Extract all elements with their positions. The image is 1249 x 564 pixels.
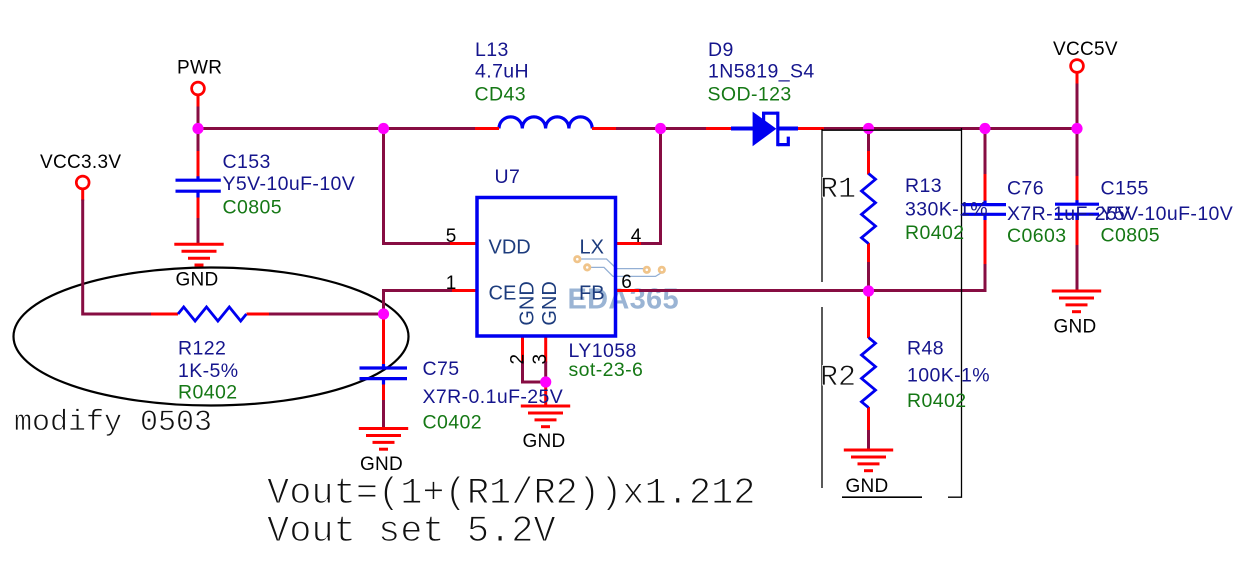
svg-text:C153: C153 xyxy=(223,151,271,173)
wire VCC3.3V to R122 xyxy=(81,190,84,201)
annotation line left bracket xyxy=(821,129,823,488)
junction FB bus / R13 bottom / R48 top xyxy=(863,285,874,296)
wire C75 branch xyxy=(382,314,385,319)
watermark EDA365 logo xyxy=(568,257,679,316)
annotation ellipse around R122 xyxy=(14,268,409,406)
capacitor C76 xyxy=(963,201,1007,220)
wire FB net (pin 6) xyxy=(616,289,640,292)
svg-text:X7R-0.1uF-25V: X7R-0.1uF-25V xyxy=(423,386,564,408)
capacitor C153 xyxy=(176,176,221,197)
svg-text:GND: GND xyxy=(1053,317,1096,338)
svg-text:C0402: C0402 xyxy=(423,412,482,434)
wire CE net (pin 1) xyxy=(451,289,477,292)
resistor R48 xyxy=(862,338,876,408)
wire R122 to CE junction xyxy=(247,313,271,316)
svg-text:FB: FB xyxy=(579,283,605,305)
diode D9 xyxy=(706,112,824,147)
ground symbol C75 xyxy=(359,429,408,450)
wire pins 2-3 junction to ground xyxy=(544,382,547,406)
svg-text:5: 5 xyxy=(446,226,457,247)
svg-text:LX: LX xyxy=(580,237,604,259)
svg-text:VDD: VDD xyxy=(489,237,531,259)
svg-text:CD43: CD43 xyxy=(475,84,526,106)
junction L13-D9 node / LX branch xyxy=(655,123,666,134)
svg-text:VCC5V: VCC5V xyxy=(1053,39,1118,60)
svg-text:L13: L13 xyxy=(475,39,509,61)
svg-text:GND: GND xyxy=(522,431,565,452)
annotation line top tick xyxy=(822,129,962,131)
wire U7 pin 2 xyxy=(521,336,524,362)
wire L13 right stub xyxy=(592,127,616,130)
svg-text:3: 3 xyxy=(530,354,551,365)
ground symbol R48 xyxy=(844,450,893,471)
junction U7 pins 2-3 ground node xyxy=(540,376,551,387)
svg-text:R13: R13 xyxy=(905,175,942,197)
wire LX net (pin 4) xyxy=(616,242,642,245)
annotation line right bracket xyxy=(948,128,962,497)
svg-text:R0402: R0402 xyxy=(178,382,237,404)
svg-text:C0603: C0603 xyxy=(1007,225,1066,247)
svg-text:VCC3.3V: VCC3.3V xyxy=(40,152,121,173)
svg-text:2: 2 xyxy=(508,354,529,365)
svg-text:R122: R122 xyxy=(178,338,226,360)
svg-text:GND: GND xyxy=(845,476,888,497)
svg-text:4.7uH: 4.7uH xyxy=(475,61,529,83)
svg-text:PWR: PWR xyxy=(177,58,222,79)
svg-text:R48: R48 xyxy=(907,338,944,360)
junction top bus / VDD branch xyxy=(378,123,389,134)
wire C76 branch xyxy=(984,220,987,265)
resistor R13 xyxy=(862,174,876,244)
svg-text:GND: GND xyxy=(539,281,561,325)
svg-text:R1: R1 xyxy=(820,173,856,207)
IC U7 body xyxy=(477,198,616,337)
ground symbol C153 xyxy=(174,244,223,265)
svg-text:SOD-123: SOD-123 xyxy=(708,84,792,106)
svg-text:GND: GND xyxy=(360,454,403,475)
svg-text:C0805: C0805 xyxy=(223,197,282,219)
svg-text:C155: C155 xyxy=(1101,178,1149,200)
terminal PWR xyxy=(192,82,205,95)
svg-text:Vout=(1+(R1/R2))x1.212: Vout=(1+(R1/R2))x1.212 xyxy=(267,473,755,515)
svg-text:100K-1%: 100K-1% xyxy=(907,365,990,387)
svg-text:CE: CE xyxy=(489,283,517,305)
capacitor C155 xyxy=(1055,200,1099,220)
terminal VCC5V xyxy=(1071,60,1084,73)
svg-text:6: 6 xyxy=(621,272,632,293)
junction VCC5V bus / C76 top xyxy=(979,123,990,134)
wire L13 left stub xyxy=(475,127,499,130)
svg-text:R0402: R0402 xyxy=(905,222,964,244)
wire C153 branch xyxy=(197,129,200,153)
svg-text:330K-1%: 330K-1% xyxy=(905,199,988,221)
junction CE / R122 / C75 node xyxy=(378,308,389,319)
ground symbol U7 pins 2-3 xyxy=(521,406,570,427)
svg-text:C75: C75 xyxy=(423,358,460,380)
wire R13 branch xyxy=(867,129,870,153)
wire C155 branch xyxy=(1076,73,1079,85)
svg-text:1: 1 xyxy=(446,273,457,294)
inductor L13 xyxy=(499,117,592,129)
junction VCC5V bus / C155 / terminal xyxy=(1071,123,1082,134)
svg-text:R0402: R0402 xyxy=(907,390,966,412)
svg-text:sot-23-6: sot-23-6 xyxy=(569,359,644,381)
svg-text:GND: GND xyxy=(517,281,539,325)
svg-text:C0805: C0805 xyxy=(1101,225,1160,247)
junction PWR / C153 / top bus xyxy=(192,123,203,134)
terminal VCC3.3V xyxy=(76,176,89,189)
svg-text:1K-5%: 1K-5% xyxy=(178,360,239,382)
svg-text:1N5819_S4: 1N5819_S4 xyxy=(708,61,815,83)
ground symbol C155 xyxy=(1052,291,1101,312)
svg-text:U7: U7 xyxy=(495,166,521,188)
svg-text:GND: GND xyxy=(175,269,218,290)
svg-text:D9: D9 xyxy=(708,39,734,61)
wire VDD net (pin 5) xyxy=(384,129,452,244)
capacitor C75 xyxy=(360,364,408,385)
svg-text:Vout set 5.2V: Vout set 5.2V xyxy=(267,511,556,553)
wire FB bus R13 bottom xyxy=(640,290,869,292)
svg-text:modify 0503: modify 0503 xyxy=(14,406,212,440)
wire R48 branch xyxy=(867,291,870,297)
wire top bus PWR to VCC5V xyxy=(198,127,1077,130)
wire PWR terminal drop xyxy=(197,96,200,108)
resistor R122 xyxy=(178,307,246,321)
svg-text:C76: C76 xyxy=(1007,178,1044,200)
svg-text:Y5V-10uF-10V: Y5V-10uF-10V xyxy=(1101,203,1234,225)
svg-text:4: 4 xyxy=(631,226,642,247)
svg-text:R2: R2 xyxy=(820,361,856,395)
junction VCC5V bus / R13 top xyxy=(863,123,874,134)
annotation underline GND xyxy=(842,496,922,498)
wire U7 pin 3 xyxy=(544,336,547,363)
svg-text:Y5V-10uF-10V: Y5V-10uF-10V xyxy=(223,173,356,195)
